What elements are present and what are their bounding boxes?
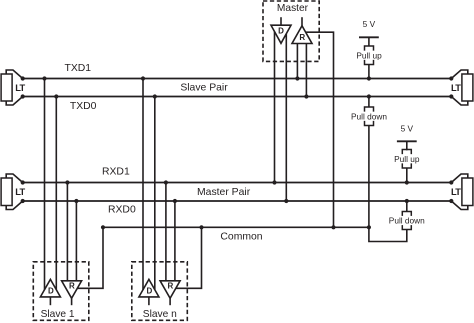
svg-text:Pull down: Pull down (389, 216, 425, 226)
wire TXD0 bus line (23, 96, 452, 98)
master receiver R input stub (301, 17, 303, 26)
junction right, slave pair LT upper dot (449, 76, 453, 80)
line termination LT (left, slave pair) (1, 70, 25, 105)
master driver D (271, 25, 291, 43)
Slave 1 block dashed box (33, 262, 89, 321)
svg-text:5 V: 5 V (401, 124, 414, 134)
resistor pull-up C (393, 150, 421, 169)
junction right, master pair LT lower dot (449, 199, 453, 203)
junction Slave n D on TXD0 (153, 94, 157, 98)
Slave 1 driver D (40, 279, 60, 297)
wire master common connection (306, 32, 334, 227)
junction right, master pair LT upper dot (449, 180, 453, 184)
svg-text:LT: LT (15, 83, 25, 93)
power supply 5 V (pull up A) (359, 19, 379, 46)
junction Slave 1 R on RXD0 (74, 199, 78, 203)
junction pull-down B on TXD0 (367, 94, 371, 98)
svg-text:5 V: 5 V (363, 19, 376, 29)
svg-text:Pull up: Pull up (356, 50, 382, 60)
line termination LT (right, master pair) (451, 174, 473, 210)
junction left, master pair LT upper dot (21, 180, 25, 184)
Slave 1 receiver R output stub (71, 298, 73, 305)
master driver D input stub (280, 17, 282, 25)
wire Slave 1 common connection (77, 227, 103, 288)
svg-text:Pull down: Pull down (351, 111, 387, 121)
svg-text:D: D (48, 287, 54, 296)
master receiver R (292, 26, 312, 44)
junction pull-up C on RXD1 (405, 180, 409, 184)
wire TXD1 bus line (23, 78, 452, 80)
junction right, slave pair LT lower dot (449, 94, 453, 98)
junction pull-up A on TXD1 (367, 76, 371, 80)
svg-text:R: R (168, 281, 174, 290)
junction left, slave pair LT lower dot (21, 94, 25, 98)
svg-text:TXD0: TXD0 (70, 101, 97, 112)
Slave n receiver R output stub (169, 298, 171, 305)
wire RXD1 bus line (23, 182, 452, 184)
junction master common on Common (331, 225, 335, 229)
svg-text:D: D (278, 27, 284, 36)
wire Slave n R input B to RXD0 (174, 201, 176, 281)
Slave n driver D (139, 279, 159, 297)
wire RXD0 bus line (23, 200, 452, 202)
svg-text:Common: Common (220, 231, 262, 242)
svg-text:RXD1: RXD1 (102, 166, 130, 177)
resistor pull-down B (350, 107, 388, 126)
wire Slave 1 R input A to RXD1 (66, 183, 68, 281)
wire TXD0 to pull-down B (368, 97, 370, 108)
svg-text:TXD1: TXD1 (65, 63, 92, 74)
junction master D on RXD0 (284, 199, 288, 203)
svg-text:LT: LT (451, 187, 461, 197)
junction pull-down D on RXD0 (405, 199, 409, 203)
svg-text:Slave Pair: Slave Pair (180, 83, 228, 94)
wire Slave 1 R input B to RXD0 (75, 201, 77, 281)
wire master D output B to RXD0 (285, 34, 287, 201)
junction Slave 1 D on TXD1 (42, 76, 46, 80)
wire pull-up A to TXD1 (368, 65, 370, 79)
svg-text:Master: Master (277, 3, 309, 14)
svg-text:R: R (299, 33, 305, 42)
wire Slave n R input A to RXD1 (165, 183, 167, 281)
Slave n receiver R (160, 281, 180, 299)
junction left, slave pair LT upper dot (21, 76, 25, 80)
wire RXD0 to pull-down D (406, 201, 408, 212)
junction left, master pair LT lower dot (21, 199, 25, 203)
junction master D on RXD1 (272, 180, 276, 184)
wire master D output A to RXD1 (274, 32, 276, 183)
wire Slave n D output A to TXD1 (142, 79, 144, 290)
wire master R input A to TXD1 (296, 44, 298, 79)
line termination LT (right, slave pair) (451, 70, 473, 105)
junction Slave n R on RXD1 (164, 180, 168, 184)
resistor pull-up A (355, 46, 383, 65)
junction Slave n D on TXD1 (141, 76, 145, 80)
master block dashed box (263, 1, 319, 61)
wire Slave 1 D output A to TXD1 (44, 79, 46, 290)
svg-text:Slave n: Slave n (143, 309, 177, 320)
junction Slave n common on Common (199, 225, 203, 229)
resistor pull-down D (388, 212, 426, 230)
junction Slave 1 R on RXD1 (65, 180, 69, 184)
Slave n driver D output stub (148, 297, 150, 305)
wire common return between pull-downs (369, 227, 407, 241)
wire Slave 1 D output B to TXD0 (55, 97, 57, 290)
junction Slave n R on RXD0 (173, 199, 177, 203)
wire Slave n D output B to TXD0 (154, 97, 156, 290)
wire Common bus line (103, 226, 369, 228)
line termination LT (left, master pair) (1, 174, 25, 210)
junction pull-down B on Common (367, 225, 371, 229)
svg-text:R: R (69, 281, 75, 290)
svg-text:Slave 1: Slave 1 (41, 309, 75, 320)
wire master R input B to TXD0 (305, 44, 307, 97)
Slave 1 receiver R (62, 281, 82, 299)
wire pull-down B to Common (368, 126, 370, 228)
junction Slave 1 common on Common (101, 225, 105, 229)
svg-text:Pull up: Pull up (394, 154, 420, 164)
wire Slave n common connection (176, 227, 202, 288)
junction Slave 1 D on TXD0 (54, 94, 58, 98)
svg-text:LT: LT (15, 187, 25, 197)
power supply 5 V (pull up C) (397, 124, 417, 151)
svg-text:Master Pair: Master Pair (197, 187, 251, 198)
junction master R on TXD1 (295, 76, 299, 80)
wire pull-up C to RXD1 (406, 168, 408, 183)
junction master R on TXD0 (304, 94, 308, 98)
svg-text:D: D (147, 287, 153, 296)
svg-text:LT: LT (451, 83, 461, 93)
svg-text:RXD0: RXD0 (108, 204, 136, 215)
Slave n block dashed box (132, 262, 188, 321)
Slave 1 driver D output stub (49, 297, 51, 305)
